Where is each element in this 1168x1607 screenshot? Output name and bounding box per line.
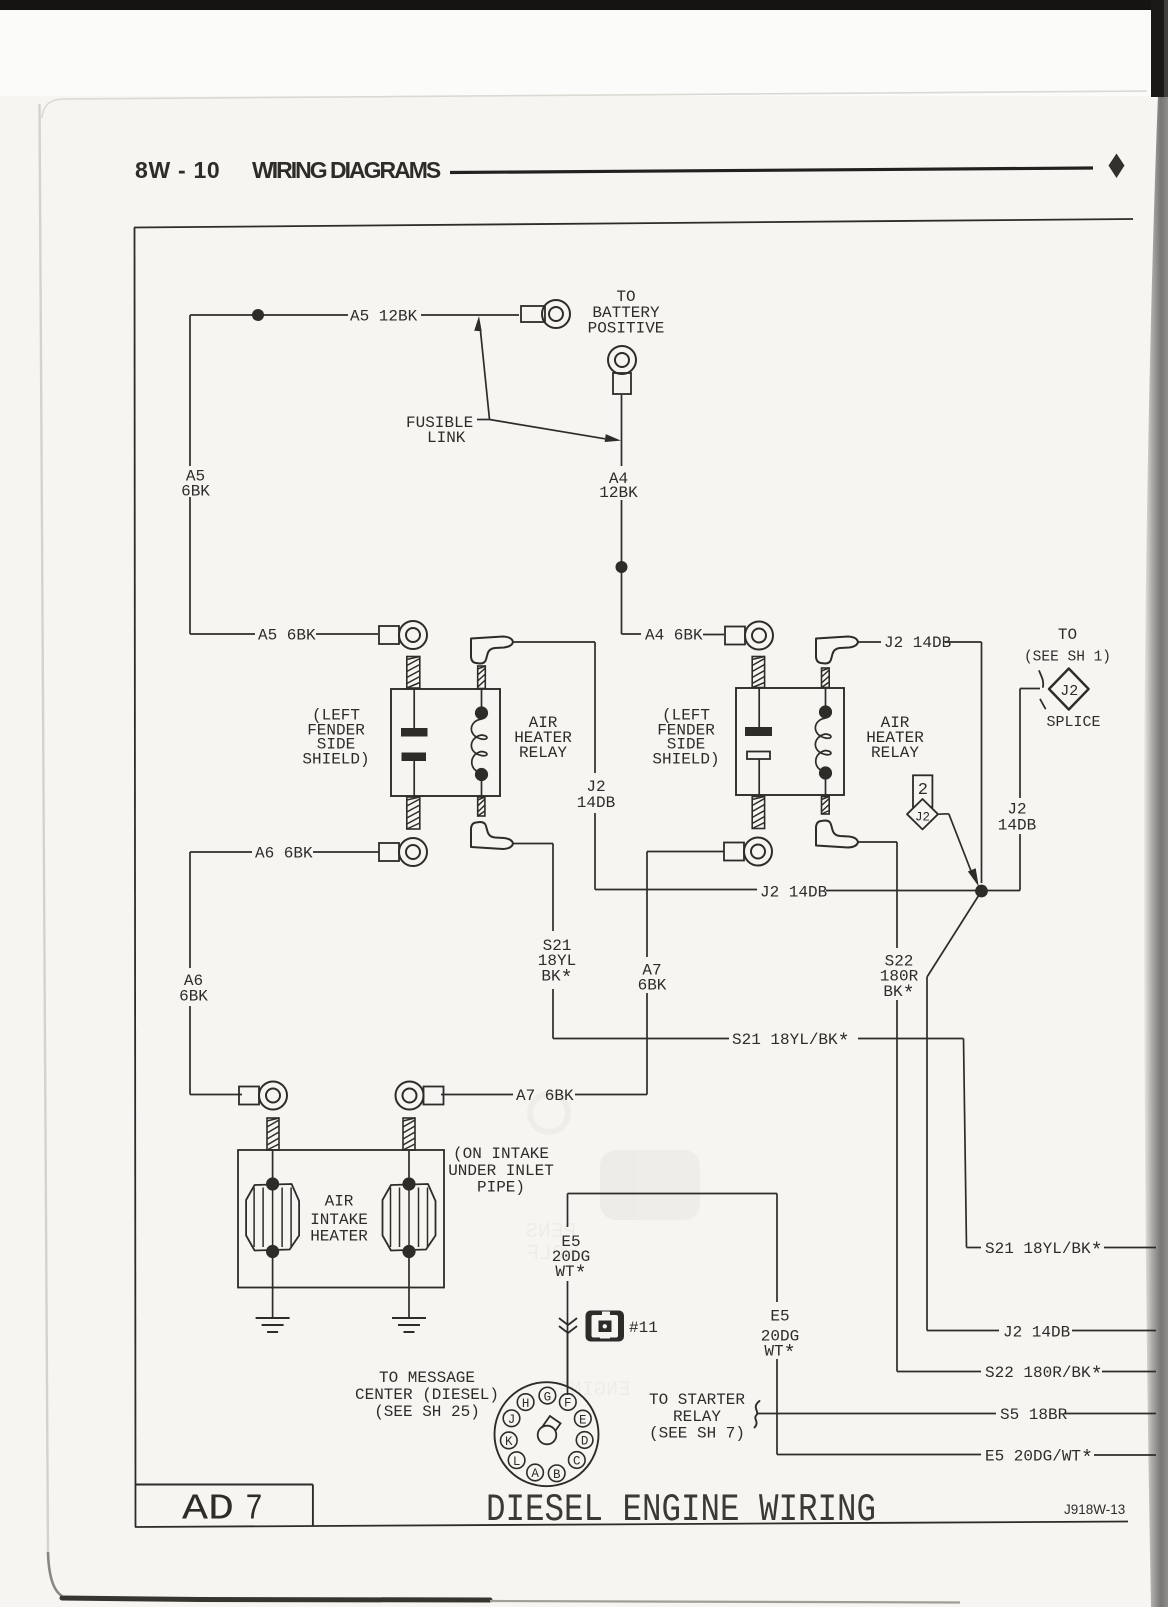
svg-text:UNDER INLET: UNDER INLET	[448, 1162, 554, 1180]
svg-text:D: D	[581, 1435, 589, 1449]
stud bolt bottom-left of right relay	[752, 797, 764, 829]
ring terminal A6 (left relay bottom)	[379, 838, 427, 866]
contact stem lower (right relay)	[758, 759, 760, 795]
ring terminal A7 (right relay bottom)	[724, 838, 772, 866]
heater element left	[246, 1177, 299, 1258]
wire A4 6BK	[622, 633, 725, 636]
svg-text:C: C	[573, 1455, 581, 1469]
svg-text:WIRING DIAGRAMS: WIRING DIAGRAMS	[252, 157, 441, 183]
relay box (right air heater relay)	[736, 688, 844, 795]
sheet number J918W-13	[1064, 1502, 1125, 1517]
label S21 18YL/BK	[732, 1031, 850, 1055]
svg-text:12BK: 12BK	[599, 484, 638, 502]
stud bolt heater right	[403, 1118, 415, 1150]
contact bar upper (right relay)	[745, 727, 772, 736]
stud bolt bottom-left of left relay	[407, 797, 420, 829]
label J2 14DB bus	[760, 884, 827, 902]
wire S5 18BR squiggle	[755, 1401, 760, 1428]
title block AD 7	[136, 1485, 313, 1530]
svg-text:S5 18BR: S5 18BR	[1000, 1406, 1068, 1424]
wire A7 6BK lower horizontal left	[190, 1094, 242, 1096]
leader from 2 J2 to junction	[938, 814, 979, 887]
contact bar lower (right relay)	[747, 752, 770, 760]
svg-text:K: K	[505, 1435, 513, 1449]
page header title 8W-10 WIRING DIAGRAMS	[135, 157, 441, 183]
wire S22 180R/BK from right relay	[858, 842, 897, 1372]
svg-text:8W - 10: 8W - 10	[135, 157, 220, 183]
wire S21 column right	[964, 1039, 967, 1248]
engine connector circle	[495, 1382, 599, 1486]
engine connector key	[538, 1416, 561, 1444]
ground symbol right	[392, 1318, 426, 1332]
wire A7 6BK lower horizontal	[441, 1094, 647, 1096]
wire A5 12BK	[190, 314, 519, 316]
svg-text:E: E	[579, 1413, 587, 1427]
wire S5 18BR	[758, 1413, 1156, 1415]
svg-text:INTAKE: INTAKE	[310, 1211, 368, 1229]
svg-text:J2 14DB: J2 14DB	[884, 634, 951, 652]
svg-text:J2 14DB: J2 14DB	[760, 884, 827, 902]
svg-text:S21 18YL/BK*: S21 18YL/BK*	[732, 1031, 850, 1055]
wire E5 row to edge	[777, 1454, 1156, 1457]
svg-text:J2: J2	[1060, 683, 1078, 700]
svg-text:14DB: 14DB	[998, 817, 1036, 835]
svg-text:A5 12BK: A5 12BK	[350, 308, 418, 326]
connector 2 J2 symbol	[907, 775, 938, 829]
svg-text:S21 18YL/BK*: S21 18YL/BK*	[985, 1240, 1103, 1264]
splice dot on A5 12BK	[252, 309, 264, 321]
label TO STARTER RELAY (SEE SH 7)	[649, 1391, 745, 1443]
label (LEFT FENDER SIDE SHIELD) right	[652, 707, 719, 769]
svg-text:AD: AD	[182, 1489, 234, 1530]
header rule	[450, 168, 1093, 173]
spade terminal bottom (right relay)	[816, 821, 858, 848]
svg-text:LINK: LINK	[427, 429, 466, 447]
fusible link callout arrows	[474, 316, 621, 442]
svg-text:TO MESSAGE: TO MESSAGE	[379, 1369, 475, 1387]
header diamond bullet	[1109, 154, 1125, 179]
label A7 6BK lower	[516, 1087, 574, 1105]
svg-text:A6 6BK: A6 6BK	[255, 845, 313, 863]
coil rod bottom (left relay)	[478, 797, 485, 816]
sheet title DIESEL ENGINE WIRING	[486, 1488, 876, 1532]
label #11	[629, 1319, 658, 1337]
svg-text:7: 7	[245, 1489, 263, 1530]
label AIR HEATER RELAY left	[514, 714, 572, 762]
label S21 18YL/BK right	[985, 1240, 1103, 1264]
junction dot J2 bus	[975, 885, 988, 898]
label A5 12BK	[350, 308, 418, 326]
label S21 18YL BK vertical	[538, 937, 576, 991]
stud bolt top-left of left relay	[407, 657, 420, 689]
wire S21 row to edge	[967, 1247, 1157, 1249]
ground symbol left	[256, 1318, 290, 1332]
stud bolt heater left	[267, 1118, 279, 1150]
svg-text:SHIELD): SHIELD)	[652, 751, 719, 769]
wire A6 6BK vertical	[189, 852, 191, 1095]
svg-text:RELAY: RELAY	[519, 744, 567, 762]
coil rod bottom (right relay)	[822, 797, 830, 815]
wire J2 14DB to splice column	[858, 642, 982, 883]
svg-text:(SEE SH 25): (SEE SH 25)	[374, 1403, 480, 1421]
svg-text:6BK: 6BK	[181, 483, 210, 501]
contact stem upper (right relay)	[758, 688, 760, 727]
wire J2 14DB down from junction	[927, 891, 982, 1331]
ring terminal heater left	[239, 1082, 287, 1110]
label S22 180R/BK right	[985, 1364, 1103, 1388]
svg-text:6BK: 6BK	[179, 988, 208, 1006]
svg-text:(SEE SH 1): (SEE SH 1)	[1024, 650, 1111, 666]
wire S21 18YL/BK from left relay	[513, 844, 553, 1039]
svg-text:WT*: WT*	[555, 1263, 586, 1287]
svg-text:BK*: BK*	[541, 968, 572, 992]
splice J2 diamond	[1049, 669, 1089, 710]
svg-text:SPLICE: SPLICE	[1047, 714, 1101, 731]
svg-text:6BK: 6BK	[638, 977, 667, 995]
label AIR INTAKE HEATER	[310, 1193, 368, 1246]
label A4 12BK	[599, 470, 638, 502]
wire S22 row to edge	[897, 1371, 1156, 1373]
wire E5 to terminal F	[567, 1333, 569, 1395]
label (ON INTAKE UNDER INLET PIPE)	[448, 1145, 554, 1197]
svg-text:RELAY: RELAY	[871, 744, 919, 762]
label SPLICE	[1047, 714, 1101, 731]
svg-text:#11: #11	[629, 1319, 658, 1337]
coil stem bottom (right relay)	[825, 779, 827, 795]
engine connector terminals A-L	[501, 1387, 593, 1482]
label A7 6BK vertical	[638, 962, 667, 995]
ring terminal heater right	[396, 1082, 444, 1110]
junction dot A4 12BK	[616, 561, 628, 573]
contact stem upper (left relay)	[413, 689, 415, 728]
label (LEFT FENDER SIDE SHIELD) left	[302, 707, 369, 769]
contact bar upper (left relay)	[401, 728, 428, 737]
svg-text:A5 6BK: A5 6BK	[258, 627, 316, 645]
svg-text:L: L	[513, 1455, 521, 1469]
svg-text:TO STARTER: TO STARTER	[649, 1391, 745, 1409]
svg-text:B: B	[553, 1468, 561, 1482]
svg-text:PIPE): PIPE)	[477, 1179, 525, 1197]
svg-text:(ON INTAKE: (ON INTAKE	[453, 1145, 549, 1163]
label J2 14DB splice column	[998, 801, 1036, 835]
coil rod top (left relay)	[478, 666, 486, 689]
label A6 6BK	[255, 845, 313, 863]
coil rod top (right relay)	[822, 668, 830, 688]
ring terminal A5 6BK	[379, 621, 427, 649]
svg-text:CENTER (DIESEL): CENTER (DIESEL)	[355, 1386, 499, 1404]
coil of left relay	[471, 706, 488, 781]
label J2 14DB right	[1003, 1324, 1070, 1342]
label A4 6BK	[645, 627, 703, 645]
stud bolt top-left of right relay	[752, 657, 764, 688]
coil stem bottom (left relay)	[481, 781, 483, 797]
svg-text:G: G	[544, 1390, 552, 1404]
spade terminal bottom (left relay)	[471, 822, 513, 849]
svg-text:F: F	[564, 1397, 572, 1411]
svg-text:TO: TO	[1058, 626, 1077, 644]
svg-text:A4 6BK: A4 6BK	[645, 627, 703, 645]
coil stem top (left relay)	[481, 689, 483, 707]
label AIR HEATER RELAY right	[866, 714, 924, 762]
svg-text:A: A	[531, 1467, 539, 1481]
wire A5 6BK vertical	[189, 315, 191, 634]
wire A5 6BK horizontal	[190, 633, 378, 635]
label A5 6BK	[258, 627, 316, 645]
svg-text:AIR: AIR	[325, 1193, 354, 1211]
label TO (SEE SH 1)	[1024, 626, 1111, 666]
label TO BATTERY POSITIVE	[588, 288, 665, 338]
svg-text:2: 2	[918, 781, 928, 800]
svg-text:H: H	[522, 1397, 530, 1411]
label E5 20DG WT right	[761, 1308, 799, 1367]
wire E5 20DG/WT	[568, 1194, 778, 1388]
svg-text:J2: J2	[915, 811, 930, 825]
svg-text:J2 14DB: J2 14DB	[1003, 1324, 1070, 1342]
svg-text:E5 20DG/WT*: E5 20DG/WT*	[985, 1448, 1093, 1472]
svg-text:POSITIVE: POSITIVE	[588, 320, 665, 338]
wire S21 18YL/BK horizontal	[553, 1038, 964, 1040]
svg-text:A7 6BK: A7 6BK	[516, 1087, 574, 1105]
label E5 20DG/WT right	[985, 1448, 1093, 1472]
svg-text:SHIELD): SHIELD)	[302, 751, 369, 769]
svg-text:DIESEL ENGINE WIRING: DIESEL ENGINE WIRING	[486, 1488, 876, 1532]
wire heater element stems	[273, 1150, 409, 1184]
label E5 20DG WT left	[552, 1233, 590, 1287]
svg-text:BK*: BK*	[883, 983, 914, 1007]
wire J2 row to edge	[927, 1330, 1156, 1332]
connector #11 icon	[586, 1311, 625, 1342]
label S5 18BR	[1000, 1406, 1068, 1424]
label J2 14DB top	[884, 634, 951, 652]
wire A6 6BK horizontal	[190, 851, 379, 853]
label TO MESSAGE CENTER (DIESEL) (SEE SH 25)	[355, 1369, 499, 1421]
wire A7 6BK vertical	[647, 852, 724, 1095]
air intake heater box	[238, 1150, 444, 1288]
label S22 180R BK vertical	[880, 953, 919, 1007]
ring terminal A4 (right relay top)	[725, 622, 773, 650]
svg-text:14DB: 14DB	[577, 794, 615, 812]
spade terminal top (right relay)	[816, 637, 858, 664]
svg-text:S22 180R/BK*: S22 180R/BK*	[985, 1364, 1103, 1388]
ground lead left	[272, 1252, 274, 1319]
wire E5 20DG/WT right column	[776, 1194, 778, 1455]
relay box (left air heater relay)	[391, 689, 500, 796]
label A6 6BK vertical	[179, 972, 208, 1006]
svg-text:E5: E5	[770, 1308, 789, 1326]
coil of right relay	[815, 705, 832, 779]
wire J2 14DB from left relay	[513, 642, 595, 890]
svg-text:RELAY: RELAY	[673, 1408, 721, 1426]
svg-text:J: J	[508, 1413, 516, 1427]
contact stem lower (left relay)	[413, 761, 415, 796]
svg-text:J918W-13: J918W-13	[1064, 1502, 1125, 1517]
svg-text:HEATER: HEATER	[310, 1228, 368, 1246]
wire A4 12BK	[621, 395, 623, 634]
ground lead right	[408, 1252, 410, 1319]
ring terminal battery positive	[608, 346, 636, 394]
label J2 14DB vertical left	[577, 778, 615, 812]
svg-text:WT*: WT*	[764, 1343, 795, 1367]
svg-text:(SEE SH 7): (SEE SH 7)	[649, 1425, 745, 1443]
splice break hooks	[1039, 671, 1045, 709]
wire J2 14DB bus horizontal	[595, 890, 1020, 891]
spade terminal top (left relay)	[471, 637, 513, 664]
ring terminal A5 12BK	[521, 300, 570, 328]
heater element right	[383, 1177, 436, 1258]
label A5 6BK vertical	[181, 468, 210, 501]
inline connector chevrons	[560, 1319, 577, 1334]
coil stem top (right relay)	[825, 688, 827, 706]
label FUSIBLE LINK	[406, 414, 473, 447]
wire to J2 splice	[1020, 689, 1040, 891]
contact bar lower (left relay)	[402, 753, 427, 762]
